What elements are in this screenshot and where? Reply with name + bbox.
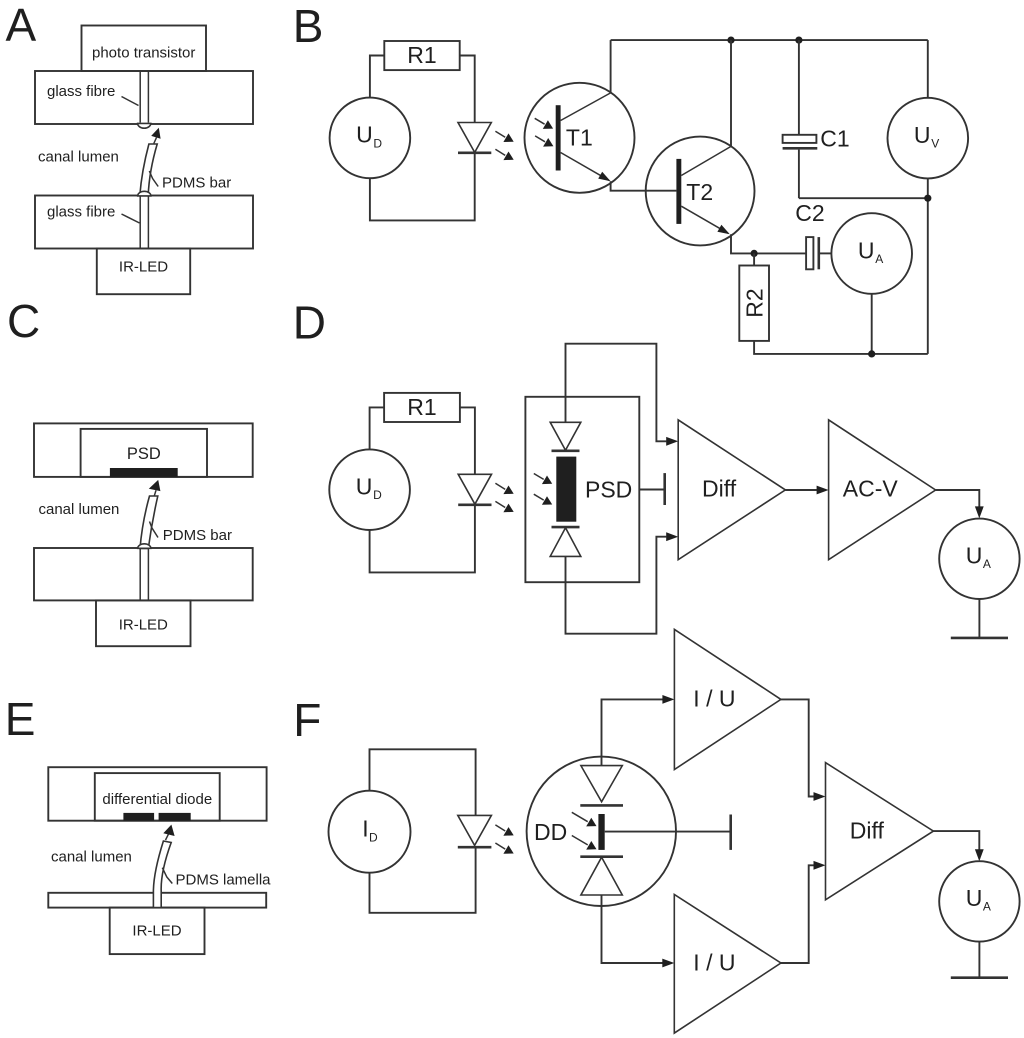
wire rail to T2 collector [730,40,732,146]
top rail [611,39,928,41]
top block (panel E) [48,767,266,821]
voltmeter UA (panel F) [939,861,1019,941]
photo transistor box [82,26,207,72]
ground (panel F) [951,942,1008,978]
svg-text:B: B [293,0,324,52]
PSD chip box [81,429,207,477]
svg-text:canal lumen: canal lumen [39,501,120,518]
resistor R1 (panel D) [384,393,460,422]
svg-text:canal lumen: canal lumen [51,849,132,866]
lower channel dome [138,191,151,196]
LED D1 (panel D) [458,474,491,505]
wire T2 emitter down to node [731,234,806,253]
current source ID [329,791,411,873]
svg-text:I / U: I / U [693,949,735,975]
svg-text:U: U [966,543,983,569]
svg-text:C2: C2 [795,200,824,226]
voltmeter UA (panel D) [939,519,1019,599]
diode segment 2 (black bar) [159,813,191,821]
amplifier AC-V [829,420,936,560]
wire DD bottom to lower I/U input [602,895,663,963]
resistor R2 [739,253,769,341]
svg-text:PDMS bar: PDMS bar [163,527,232,544]
voltmeter UA (panel B) [831,213,912,294]
DD common terminal [605,815,731,850]
op-amp I/U upper [674,629,781,769]
wire upper I/U to Diff + input [781,699,814,796]
svg-text:D: D [373,488,382,502]
svg-text:A: A [983,557,991,571]
arrowhead into Diff lower (panel F) [814,861,826,870]
top block (panel C) [34,423,253,477]
wire ID top to LED [370,749,476,815]
wire R1 left to UD (panel D) [370,407,385,449]
lower channel (panel C) [140,549,148,600]
arrowhead into Diff upper input [666,437,678,446]
lower glass fibre block [35,196,253,249]
svg-text:C1: C1 [820,126,849,152]
svg-text:IR-LED: IR-LED [119,259,168,276]
capacitor C2 [795,200,831,269]
junction C1 top [795,37,802,44]
svg-text:T1: T1 [566,125,593,151]
svg-text:photo transistor: photo transistor [92,45,195,62]
svg-text:differential diode: differential diode [102,791,212,808]
deflection arrow (panel E) [163,825,174,841]
lower fibre channel [140,197,148,249]
svg-text:Diff: Diff [702,476,737,502]
diode segment 1 (black bar) [123,813,154,821]
svg-text:PSD: PSD [585,477,632,503]
PDMS bar beam (panel C) [140,496,158,549]
voltmeter UV [888,98,969,179]
svg-text:R2: R2 [742,288,768,317]
wire PSD bottom loop to Diff - input [566,537,667,634]
PSD active area (black bar) [110,468,178,477]
thin plate (panel E) [48,893,266,908]
svg-text:AC-V: AC-V [843,476,899,502]
svg-text:V: V [931,136,939,150]
junction T2 collector [727,37,734,44]
differential diode box [95,773,220,821]
arrowhead into lower I/U [662,959,674,968]
IR-LED box (panel C) [96,600,191,646]
svg-text:PDMS lamella: PDMS lamella [176,872,272,889]
source UD (panel D) [329,449,410,530]
LED light arrows (panel B) [495,131,513,160]
DD active bar [598,814,604,850]
PDMS bar label (panel C) [150,522,232,545]
arrowhead into UA (panel F) [975,849,984,861]
wire UD bottom (panel D) [370,505,475,573]
PSD box [525,397,639,582]
svg-text:A: A [983,900,991,914]
wire R1 left to UD [370,56,384,98]
DD bottom diode [580,857,623,895]
svg-text:R1: R1 [407,42,436,68]
arrowhead into UA (panel D) [975,506,984,518]
svg-text:A: A [875,252,883,266]
PDMS bar label [149,171,231,192]
differential diode DD circle [527,757,676,906]
wire lower I/U to Diff - input [781,865,814,963]
common terminal of PSD [639,473,664,505]
PDMS lamella label [162,868,271,889]
svg-text:DD: DD [534,819,567,845]
svg-text:T2: T2 [686,179,713,205]
wire DD top to upper I/U input [602,699,663,765]
source UD (panel B) [330,98,411,179]
wire Diff to UA (panel F) [933,831,979,850]
wire ID bottom loop [370,847,476,913]
DD top diode [580,766,623,806]
svg-text:A: A [6,0,37,51]
deflection arrow (panel C) [149,480,161,496]
LED D1 (panel F) [458,815,492,847]
svg-text:U: U [914,122,931,148]
svg-text:U: U [356,122,373,148]
phototransistor T1 [525,83,635,193]
svg-text:D: D [373,136,382,150]
LED D1 (panel B) [458,123,491,153]
junction UA bottom [868,350,875,357]
wire rail to UV top [927,40,929,98]
arrowhead into Diff upper (panel F) [814,792,826,801]
svg-text:U: U [858,237,875,263]
wire T1 emitter to T2 base [611,181,677,191]
svg-text:I / U: I / U [693,685,735,711]
svg-text:IR-LED: IR-LED [119,617,168,634]
light arrows into T1 [535,118,554,146]
arrowhead into AC-V [817,486,829,495]
resistor R1 (panel B) [384,41,459,70]
svg-text:glass fibre: glass fibre [47,83,115,100]
svg-text:E: E [5,693,36,745]
light arrows into DD [572,812,597,849]
bottom wire (panel B) [754,341,928,354]
svg-text:I: I [362,816,368,842]
svg-text:D: D [369,831,378,845]
op-amp Diff (panel D) [678,420,785,560]
ground (panel D) [951,599,1008,638]
capacitor C1 [783,40,850,198]
op-amp I/U lower [674,895,781,1034]
wire UA bottom [871,294,873,354]
glass fibre label (lower) [47,204,140,224]
junction R2 top node [751,250,758,257]
PSD active area bar [556,457,576,522]
PSD top diode [550,397,581,451]
PDMS bar (bent beam) [140,144,157,196]
svg-text:canal lumen: canal lumen [38,149,119,166]
svg-text:R1: R1 [407,394,436,420]
arrowhead into Diff lower input [666,532,678,541]
wire T1 collector to rail [610,40,612,93]
IR-LED box (panel A) [97,249,190,295]
lower block (panel C) [34,548,253,600]
transistor T2 [646,137,755,246]
PSD bottom diode [550,527,581,582]
junction UV bottom [924,195,931,202]
op-amp Diff (panel F) [826,763,934,900]
glass fibre label (upper) [47,83,139,106]
svg-text:D: D [293,297,326,349]
PDMS lamella (bent) [153,841,171,908]
IR-LED box (panel E) [110,908,205,955]
LED light arrows (panel D) [495,483,513,512]
LED light arrows (panel F) [495,825,513,854]
channel dome (panel C) [138,544,151,549]
svg-text:PSD: PSD [127,445,161,463]
svg-text:U: U [966,885,983,911]
wire AC-V to UA [936,490,980,507]
wire UD bottom [370,153,475,221]
upper fibre channel [140,71,148,123]
wire UV bottom down right side [927,178,929,354]
deflection arrow [151,128,160,144]
fibre tip dome [138,123,151,128]
light arrows into PSD [534,474,552,505]
wire PSD top loop to Diff + input [566,344,667,442]
svg-text:U: U [356,474,373,500]
svg-text:C: C [7,295,40,347]
wire R1 right to LED (panel D) [460,407,475,474]
wire C1 bottom to UV bottom [799,197,928,199]
svg-text:IR-LED: IR-LED [132,923,181,940]
wire Diff to AC-V [785,489,817,491]
svg-text:Diff: Diff [850,817,885,843]
svg-text:PDMS bar: PDMS bar [162,175,231,192]
svg-text:glass fibre: glass fibre [47,204,115,221]
arrowhead into upper I/U [662,695,674,704]
svg-text:F: F [293,694,321,746]
upper glass fibre block [35,71,253,124]
wire R1 right to LED [460,56,475,123]
